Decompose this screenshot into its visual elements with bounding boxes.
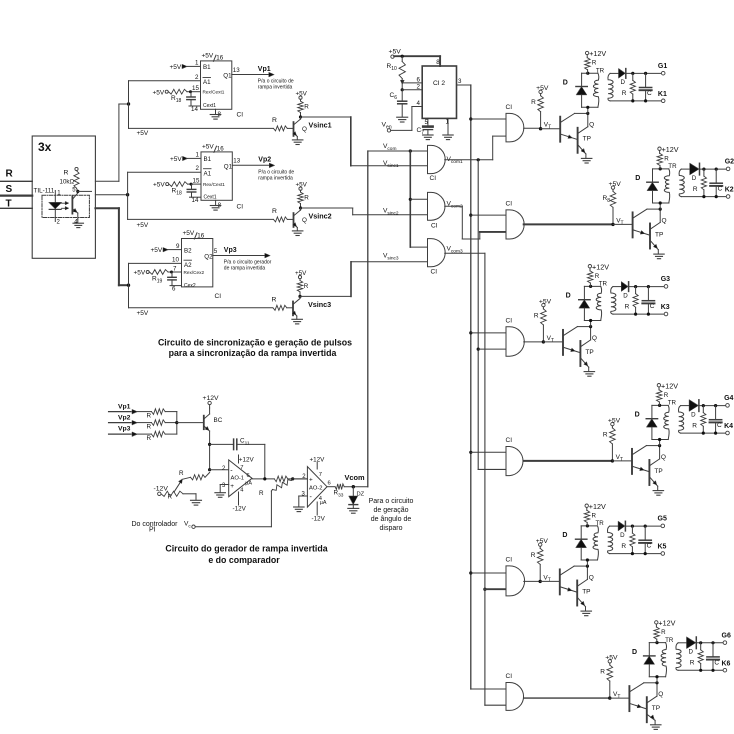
svg-text:14: 14 (192, 197, 199, 204)
optocoupler U0 phototransistor (71, 196, 73, 214)
transformer TR6 primary coil (661, 643, 666, 677)
junction dot op-amp inverting input (208, 468, 211, 471)
svg-text:TP: TP (654, 468, 662, 475)
svg-text:+12V: +12V (203, 395, 220, 402)
transformer TR3 secondary coil (611, 287, 616, 315)
svg-text:B2: B2 (184, 247, 192, 254)
op-amp AO-2 -12V pin 4 (316, 502, 318, 515)
junction dot collector driver 5 (586, 565, 589, 568)
wire R input (0, 180, 32, 182)
label Vcom1 (447, 156, 463, 165)
svg-text:de ângulo de: de ângulo de (371, 516, 412, 523)
svg-text:R: R (147, 423, 152, 430)
svg-text:TR: TR (665, 637, 674, 644)
wire pin 4 (412, 106, 422, 108)
svg-text:+5V: +5V (170, 64, 182, 71)
svg-text:Q: Q (302, 217, 307, 224)
svg-text:CI: CI (506, 200, 513, 207)
terminal K2 (726, 195, 730, 199)
transistor Q driver 3 (543, 341, 562, 343)
svg-text:rampa invertida: rampa invertida (258, 176, 293, 182)
wire Vcom distribution vertical (409, 151, 411, 247)
svg-text:+12V: +12V (589, 49, 606, 58)
resistor R feedback from Vc (273, 480, 292, 491)
transistor Q sync 1 (287, 127, 293, 129)
junction dot Vcom1 vertical (477, 158, 480, 161)
junction dot pin 15 (189, 90, 192, 93)
monostable CI2 +5V pin16 label (202, 143, 224, 152)
svg-text:6: 6 (417, 76, 421, 83)
op-amp AO-2 inverting to ground (299, 495, 308, 497)
junction dot loop1 (127, 102, 130, 105)
AND gate CI-A3 (Vcom3) (428, 239, 446, 267)
junction dot +5V R10 (401, 55, 404, 58)
svg-text:-12V: -12V (233, 506, 247, 513)
ground Q sync 3 (296, 316, 298, 319)
wire Vsinc1 from Q1 to gate (301, 116, 351, 118)
svg-text:de geração: de geração (373, 507, 408, 514)
svg-text:R: R (693, 186, 698, 193)
svg-text:+12V: +12V (589, 502, 606, 511)
svg-text:+5V: +5V (170, 156, 182, 163)
wire secondary top rail driver 4 (681, 405, 690, 407)
resistor R to +12V driver 3 (592, 262, 609, 280)
node S input label (6, 184, 13, 195)
junction dot Vcom3 to gate CI-B5 (483, 588, 486, 591)
svg-text:Rex/Cext1: Rex/Cext1 (203, 182, 225, 187)
diode D freewheel driver 1 (581, 73, 583, 86)
capacitor C7 (427, 118, 429, 125)
wire AO-1 output pin 6 (247, 473, 250, 479)
svg-text:Q: Q (658, 691, 663, 698)
svg-text:PI: PI (149, 527, 156, 534)
AND gate CI-A1 (Vcom1) (428, 145, 446, 173)
power +12V for BC (203, 395, 220, 402)
transistor Q driver 1 (541, 128, 560, 130)
ground opto emitter (77, 219, 79, 223)
svg-text:+5V: +5V (137, 222, 149, 229)
svg-text:S: S (6, 184, 13, 195)
svg-text:+5V: +5V (137, 310, 149, 317)
svg-text:C: C (718, 186, 723, 193)
transformer TR5 primary coil (593, 526, 598, 560)
svg-text:+: + (309, 476, 313, 483)
transistor Q sync 3 (287, 307, 293, 309)
transistor TP driver 1 (577, 128, 579, 153)
svg-text:10: 10 (172, 257, 179, 264)
wire BC emitter down (209, 431, 211, 470)
svg-text:Vp1: Vp1 (258, 66, 271, 73)
svg-text:CI: CI (430, 175, 437, 182)
svg-text:R: R (64, 170, 69, 177)
junction dot collector driver 1 (586, 112, 589, 115)
svg-text:10kΩ: 10kΩ (60, 179, 75, 186)
svg-text:C: C (717, 422, 722, 429)
svg-text:Vcom: Vcom (345, 473, 366, 482)
resistor R to +12V driver 1 (589, 49, 606, 66)
wire pin 2 (402, 89, 422, 91)
ground emitter TP driver 4 (657, 486, 659, 490)
svg-text:TR: TR (599, 281, 608, 288)
capacitor C secondary driver 3 (647, 287, 649, 301)
junction dot C11 tap (208, 443, 211, 446)
transistor TP driver 2 (649, 224, 651, 249)
capacitor C secondary driver 1 (645, 73, 647, 87)
transistor Q driver 4 (612, 460, 631, 462)
resistor R base Q1 sync (272, 117, 277, 124)
svg-text:13: 13 (233, 67, 240, 74)
power +5V for CI 2 (389, 49, 402, 56)
ground emitter TP driver 3 (588, 367, 590, 371)
input Ven (382, 122, 392, 131)
svg-text:B1: B1 (203, 64, 211, 71)
svg-text:CI: CI (506, 104, 513, 111)
diode D freewheel driver 4 (651, 405, 653, 418)
junction dot Vcom1 to gate CI-B3 (477, 348, 480, 351)
svg-text:G1: G1 (658, 63, 667, 70)
svg-text:+12V: +12V (239, 456, 255, 463)
junction dot pin 2 node (401, 88, 404, 91)
diode D freewheel driver 3 (583, 286, 585, 299)
svg-text:Q1: Q1 (224, 164, 233, 171)
svg-text:14: 14 (191, 106, 198, 113)
junction dot pin 15 (190, 183, 193, 186)
svg-text:CI: CI (237, 204, 244, 211)
capacitor C6 (401, 90, 403, 101)
svg-text:R: R (690, 660, 695, 667)
junction dots secondary top driver 3 (634, 285, 637, 288)
transistor Q driver 2 (613, 223, 632, 225)
transformer TR1 primary coil (593, 73, 598, 107)
monostable CI2 box (201, 152, 232, 200)
resistor R collector pullup Vsinc3 (295, 270, 309, 290)
node VT driver 4 (611, 459, 614, 462)
svg-text:K1: K1 (658, 91, 667, 98)
label CI for CI3 (215, 293, 222, 300)
capacitor C secondary driver 5 (644, 526, 646, 540)
ground Q sync 1 (296, 137, 298, 140)
svg-text:R: R (179, 470, 184, 477)
svg-text:Vp3: Vp3 (224, 247, 237, 254)
svg-text:16: 16 (217, 146, 224, 153)
label Vsinc1 input (383, 160, 399, 169)
wire Vsinc2 from Q2 to gate (301, 207, 353, 209)
wire Vcom1 distribution vertical (477, 160, 479, 470)
transformer TR4 primary connectors (652, 404, 668, 406)
svg-text:6: 6 (247, 473, 250, 479)
svg-text:DZ: DZ (357, 491, 365, 497)
transformer TR3 primary coil (596, 286, 601, 320)
monostable CI3 pin 10 label (172, 257, 179, 264)
svg-text:R: R (621, 543, 626, 550)
junction dots secondary top driver 4 (702, 404, 705, 407)
junction dot CI2 line to gate B2 (469, 214, 472, 217)
svg-text:R: R (6, 169, 14, 180)
AND gate CI-B5 output driver (506, 566, 525, 596)
terminal G6 (723, 641, 727, 645)
capacitor C secondary driver 4 (715, 406, 717, 420)
svg-text:+5V: +5V (202, 143, 214, 150)
svg-text:e do comparador: e do comparador (208, 555, 280, 565)
resistor R collector pullup Vsinc1 (296, 91, 310, 111)
svg-text:3x: 3x (38, 140, 52, 154)
svg-text:CI: CI (431, 269, 438, 276)
diode D output driver 1 (619, 69, 626, 79)
transformer TR5 secondary coil (608, 526, 613, 554)
svg-text:D: D (620, 532, 625, 539)
terminal G4 (726, 404, 730, 408)
optocoupler U0 LED (54, 191, 56, 222)
svg-text:C: C (714, 659, 719, 666)
transformer TR5 primary connectors (581, 525, 597, 527)
capacitor Cext1 cap (190, 92, 192, 97)
svg-text:-12V: -12V (312, 516, 326, 523)
wire Vcom1 feed gate CI-B1 (492, 136, 494, 160)
svg-text:D: D (562, 532, 567, 539)
node Vcom comparator output (352, 485, 355, 488)
AND gate CI-B2 output driver (506, 210, 524, 239)
svg-text:R: R (272, 208, 277, 215)
junction dot C11 return (263, 477, 266, 480)
diode D output driver 6 (687, 637, 696, 649)
svg-text:AO-1: AO-1 (231, 475, 245, 481)
wire gate B5 output to driver 5 (524, 580, 541, 582)
op-amp AO-2 (307, 467, 327, 508)
svg-text:R: R (625, 303, 630, 310)
svg-text:Circuito do gerador de rampa i: Circuito do gerador de rampa invertida (165, 544, 327, 554)
resistor R pullup driver 4 (603, 417, 621, 438)
junction dot loop3 (127, 284, 130, 287)
title sync circuit (158, 337, 352, 358)
wire secondary bottom rail driver 3 (613, 313, 664, 315)
wire gate B1 output to driver 1 (524, 127, 541, 129)
AND gate CI-B3 output driver (506, 327, 524, 356)
terminal G3 (664, 285, 668, 289)
wire T input (0, 207, 32, 209)
svg-text:BC: BC (214, 417, 223, 424)
wire secondary bottom rail driver 1 (610, 100, 661, 102)
resistor R10 (potentiometer) (401, 56, 403, 61)
svg-text:+12V: +12V (658, 619, 675, 628)
wire Vcom2 to gate CI-B2 (445, 205, 463, 207)
label Vsinc1 (309, 121, 332, 130)
wire Vcom1 to output gates (445, 159, 493, 161)
wire CI2 line into gate B1 (471, 118, 506, 120)
svg-text:para a sincronização da rampa: para a sincronização da rampa invertida (169, 348, 337, 358)
wire CI2 line into gate B3 (471, 332, 506, 334)
transformer TR4 primary coil (664, 405, 669, 439)
resistor R to inverting input (182, 477, 190, 479)
monostable CI1 +5V pin16 label (202, 52, 224, 61)
AND gate CI-B4 output driver (506, 447, 523, 476)
monostable CI1 pin name labels (203, 64, 233, 109)
diode D freewheel driver 2 (652, 169, 654, 182)
svg-text:+5V: +5V (183, 230, 195, 237)
svg-text:D: D (689, 649, 694, 656)
resistor R collector pullup Vsinc2 (296, 182, 310, 202)
svg-text:de rampa invertida: de rampa invertida (224, 266, 266, 272)
wire collector to transformer TR2 (659, 203, 661, 209)
svg-text:5: 5 (214, 248, 218, 255)
svg-text:G2: G2 (725, 159, 734, 166)
svg-text:D: D (635, 175, 640, 182)
ground emitter TP driver 1 (585, 154, 587, 158)
svg-text:R: R (272, 117, 277, 124)
svg-text:R: R (304, 195, 309, 202)
junction dots secondary top driver 5 (631, 525, 634, 528)
transformer TR1 secondary coil (608, 73, 613, 101)
optocoupler U0 LED light arrows (62, 202, 67, 204)
svg-text:CI: CI (506, 317, 513, 324)
note text firing angle (369, 498, 414, 532)
wire CI2 line into gate B5 (471, 572, 506, 574)
ground pin 1 (447, 118, 449, 134)
wire collector to transformer TR5 (586, 560, 588, 566)
node R input label (6, 169, 14, 180)
resistor R base Q3 sync (272, 296, 277, 303)
input Vc from PI controller (132, 521, 192, 534)
svg-text:2: 2 (195, 74, 199, 81)
svg-text:2: 2 (196, 165, 200, 172)
transformer TR2 primary connectors (653, 168, 669, 170)
transformer TR1 primary connectors (582, 72, 598, 74)
transformer TR3 primary connectors (584, 285, 600, 287)
resistor R pullup driver 2 (603, 181, 622, 204)
resistor R secondary driver 3 (635, 287, 637, 294)
svg-text:Vp1: Vp1 (118, 404, 131, 411)
svg-text:D: D (623, 292, 628, 299)
capacitor C11 feedback (210, 443, 234, 445)
resistor R Vp3 (152, 431, 166, 437)
svg-text:D: D (692, 175, 697, 182)
junction dot collector driver 4 (658, 444, 661, 447)
svg-text:-12V: -12V (154, 486, 169, 493)
junction dot CI2 line to gate B4 (469, 451, 472, 454)
terminal G5 (661, 524, 665, 528)
junction dot CI2 line to gate B3 (469, 331, 472, 334)
monostable CI1 pin 1 +5V input (170, 60, 200, 71)
ground monostable CI1 pin 8 (215, 109, 217, 114)
svg-text:C: C (647, 543, 652, 550)
capacitor C secondary driver 2 (715, 169, 717, 183)
junction dot CI2 line to gate B5 (469, 571, 472, 574)
label Vsinc3 (308, 300, 331, 309)
svg-text:Cext1: Cext1 (204, 194, 217, 200)
transformer TR2 primary coil (664, 169, 669, 203)
svg-text:R: R (595, 273, 600, 280)
optocoupler pin labels (57, 187, 79, 225)
svg-text:Q: Q (661, 454, 666, 461)
title ramp generator circuit (165, 544, 327, 566)
svg-text:TR: TR (668, 163, 677, 170)
svg-text:Q1: Q1 (223, 73, 232, 80)
svg-text:+5V: +5V (134, 270, 146, 277)
op-amp AO-2 +12V pin 7 (316, 463, 318, 470)
zener diode DZ (352, 487, 354, 496)
wire secondary top rail driver 5 (610, 525, 619, 527)
junction dot collector driver 2 (659, 208, 662, 211)
wire secondary bottom rail driver 2 (681, 196, 726, 198)
resistor R secondary driver 6 (700, 643, 702, 650)
wire gate B3 output to driver 3 (524, 341, 544, 343)
svg-text:B1: B1 (204, 156, 212, 163)
svg-text:5: 5 (425, 119, 429, 126)
svg-text:µA: µA (245, 481, 252, 487)
ground DZ (352, 505, 354, 509)
svg-text:D: D (563, 79, 568, 86)
wire collector to transformer TR4 (659, 440, 661, 446)
svg-text:R: R (592, 60, 597, 67)
svg-text:CI: CI (506, 437, 513, 444)
wire gate B2 output to driver 2 (524, 223, 613, 225)
potentiometer R offset -12V (154, 486, 169, 493)
terminal K5 (661, 552, 665, 556)
op-amp AO-1 +12V pin 7 (238, 455, 240, 463)
wiper arrow R10 to pin 6 (400, 80, 404, 84)
svg-text:D: D (566, 293, 571, 300)
svg-text:Q: Q (592, 335, 597, 342)
monostable CI2 pin 14 wire (190, 196, 202, 198)
svg-text:D: D (632, 649, 637, 656)
svg-text:A1: A1 (204, 170, 212, 177)
transistor TP driver 5 (576, 581, 578, 606)
monostable CI2 output Q pin 13 / Vp2 (233, 158, 240, 165)
svg-text:AO-2: AO-2 (309, 486, 323, 492)
resistor R to +12V driver 5 (589, 502, 606, 520)
node Vsinc3 (298, 295, 301, 298)
transistor TP driver 6 (646, 697, 648, 722)
resistor R secondary driver 4 (702, 406, 704, 413)
svg-text:Q: Q (589, 574, 594, 581)
svg-text:Vsinc3: Vsinc3 (308, 300, 331, 309)
diode D output driver 5 (618, 521, 625, 531)
svg-text:Q2: Q2 (204, 254, 213, 261)
ground C6 (397, 116, 408, 118)
wire Vsinc3 from Q3 to gate (300, 295, 351, 297)
junction dot pin 7 (170, 271, 173, 274)
junction dot CI2 line to gate B1 (469, 117, 472, 120)
wire +5V to pin 8 (394, 55, 440, 57)
wire secondary top rail driver 2 (681, 168, 690, 170)
svg-text:R: R (661, 629, 666, 636)
monostable CI3 pin 9 +5V input (151, 243, 181, 254)
svg-text:Rex/Cex2: Rex/Cex2 (184, 270, 205, 275)
wire collector to transformer TR3 (590, 321, 592, 327)
resistor R secondary driver 1 (632, 73, 634, 80)
svg-text:+5V: +5V (153, 182, 165, 189)
diode D freewheel driver 5 (580, 526, 582, 539)
svg-text:Vsinc1: Vsinc1 (309, 121, 332, 130)
AND gate CI-B1 output driver (506, 113, 524, 141)
svg-text:16: 16 (197, 232, 204, 239)
svg-text:1: 1 (196, 152, 200, 159)
svg-text:CI: CI (215, 293, 222, 300)
svg-text:Vp2: Vp2 (258, 157, 271, 164)
svg-text:G5: G5 (658, 516, 667, 523)
svg-text:R: R (664, 392, 669, 399)
label Vcom2 (447, 201, 463, 210)
svg-text:TP: TP (652, 705, 660, 712)
resistor R 10k in opto block (75, 167, 78, 170)
svg-text:R: R (622, 90, 627, 97)
transformer TR6 primary connectors (649, 642, 665, 644)
svg-text:R: R (531, 552, 536, 559)
svg-text:4: 4 (417, 100, 421, 107)
wire opto out1 to monostable 1 (95, 180, 119, 182)
terminal G2 (726, 167, 730, 171)
svg-text:D: D (621, 79, 626, 86)
junction dot loop2 (126, 193, 129, 196)
